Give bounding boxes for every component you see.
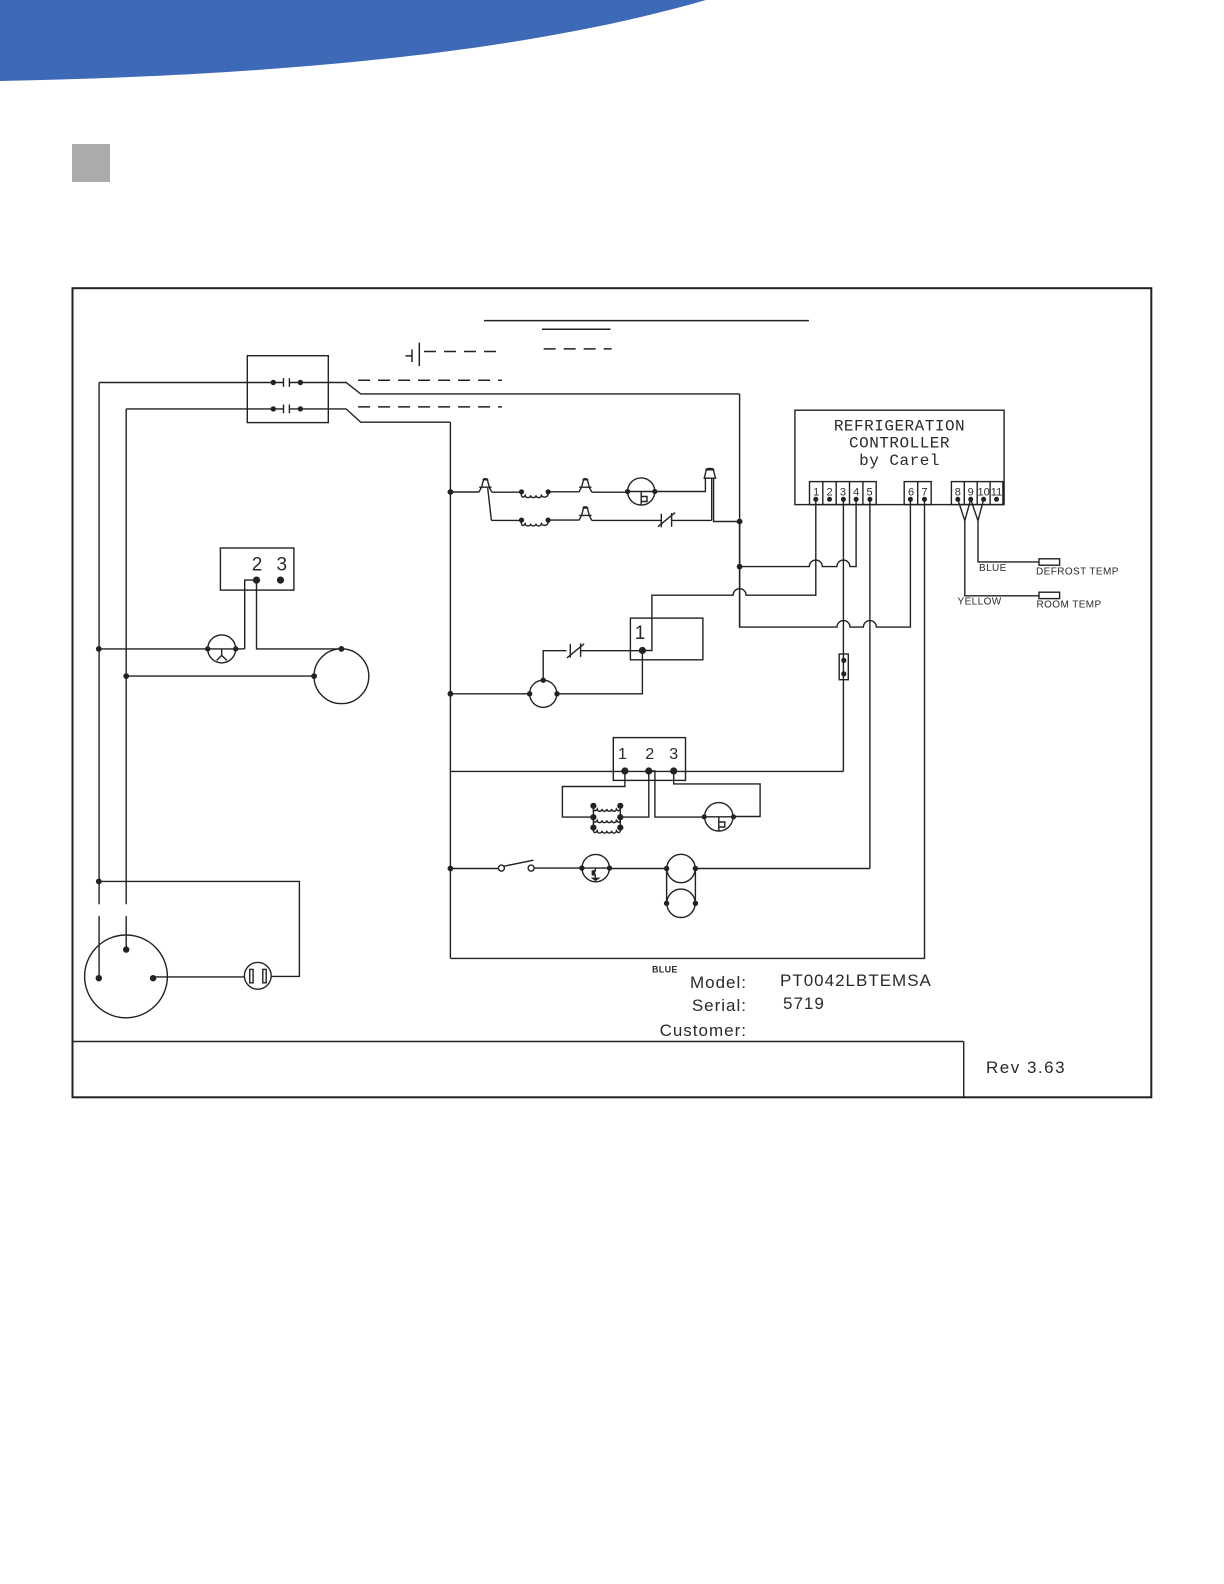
svg-text:1: 1: [635, 623, 646, 644]
CN1 pin dot: [639, 647, 646, 654]
contact plates row2: [284, 405, 290, 414]
start winding coil (lower): [521, 520, 548, 526]
transformer winding row1: [593, 806, 620, 811]
wire terminal7 down: [450, 499, 924, 958]
compressor motor circle M: [314, 649, 369, 704]
transformer dot top-right: [617, 803, 623, 809]
svg-text:5719: 5719: [783, 994, 825, 1013]
contact dot row2 left: [271, 406, 276, 411]
plug prong dot left: [96, 975, 102, 981]
svg-text:PT0042LBTEMSA: PT0042LBTEMSA: [780, 971, 932, 990]
C1 dot left: [527, 691, 532, 696]
door switch blade: [504, 860, 534, 866]
coil dot lower right: [546, 518, 551, 523]
CN23 pin dot 2: [253, 577, 260, 584]
wire outlet loop: [99, 881, 300, 976]
wire terminal4 down to node: [740, 499, 857, 566]
wire cutout to CN1 pin: [581, 650, 643, 652]
plug prong dot top: [123, 946, 129, 952]
wire left riser to fan motor: [99, 648, 208, 650]
S dot left: [579, 865, 584, 870]
transformer dot mid-right: [617, 814, 623, 820]
svg-text:2: 2: [826, 487, 832, 499]
power cord plug circle: [85, 935, 168, 1018]
terminal dot 2: [827, 497, 832, 502]
terminal dot 5: [867, 497, 872, 502]
wire switch feed: [450, 868, 498, 870]
sensor wire V 8-9 to yellow: [958, 499, 1039, 596]
blank title line long: [484, 320, 809, 322]
dashed neutral wire row1: [358, 379, 502, 381]
wire S to double heater: [610, 868, 667, 870]
wire plug right prong to outlet: [153, 976, 244, 978]
terminal dot 3: [841, 497, 846, 502]
svg-text:9: 9: [968, 487, 974, 499]
svg-text:BLUE: BLUE: [979, 563, 1007, 574]
svg-text:1: 1: [813, 487, 819, 499]
terminal dot 7: [922, 497, 927, 502]
wire L1 from left riser to TB1: [99, 382, 283, 384]
CN1 pin wire down to drain heater: [557, 651, 642, 694]
S internal glyph: [592, 868, 598, 880]
connector block CN123: [613, 738, 685, 781]
transformer right rail: [619, 806, 621, 828]
run winding coil (upper): [521, 492, 548, 498]
CN123 pin2 wire to defrost heater F2: [649, 771, 704, 817]
terminal dot 4: [854, 497, 859, 502]
wire terminal3 down to rail: [842, 499, 844, 771]
junction dot fan line: [96, 646, 102, 652]
svg-text:REFRIGERATION: REFRIGERATION: [834, 418, 965, 436]
dashed neutral wire row2: [358, 406, 502, 408]
spade terminal T1: [479, 479, 492, 493]
fan motor internal glyph: [641, 492, 647, 506]
svg-text:5: 5: [866, 487, 872, 499]
terminal dot 8: [955, 497, 960, 502]
heater dot bottom-left: [664, 901, 669, 906]
heater dot top-right: [693, 866, 698, 871]
terminal dot 10: [981, 497, 986, 502]
wire fan motor to plug lead: [655, 491, 706, 493]
evaporator fan motor F1: [208, 635, 236, 663]
terminal dot 1: [813, 497, 818, 502]
lower branch wire: [491, 519, 521, 521]
C1 dot right: [554, 691, 559, 696]
supply rail y=771.4: [450, 770, 843, 772]
coil dot upper right: [546, 489, 551, 494]
S dot right: [607, 865, 612, 870]
title block divider horizontal: [73, 1041, 964, 1043]
wire L2 from left riser to TB1: [126, 408, 283, 410]
svg-text:2: 2: [645, 746, 654, 763]
refrigeration controller box U1: [795, 410, 1004, 504]
terminal dot 11: [994, 497, 999, 502]
defrost sensor bulb: [1039, 559, 1060, 565]
wire T3 to overload contact: [592, 519, 662, 521]
main vertical feeder x=450: [449, 422, 451, 958]
wire row1 out of TB1: [290, 383, 740, 394]
F2 dot left: [702, 814, 707, 819]
junction dot branch start: [448, 489, 454, 495]
ground-like symbol short bar: [411, 349, 413, 362]
contact plates row1: [284, 378, 290, 387]
junction dot x=450 y=693: [448, 691, 454, 697]
F2 internal glyph: [719, 817, 725, 831]
wire overload to plug lead: [672, 519, 712, 521]
transformer dot low-right: [617, 825, 623, 831]
wire heater to terminal5 riser: [695, 868, 870, 870]
plug lead middle: [711, 478, 713, 520]
F1 chord: [208, 648, 236, 650]
wire terminal6 down: [740, 394, 911, 627]
junction dot switch feed: [448, 866, 454, 872]
terminal box TB1: [247, 356, 328, 423]
transformer dot low-left: [590, 825, 596, 831]
heater dot bottom-right: [693, 901, 698, 906]
defrost cutout slash: [567, 644, 584, 658]
ground-like symbol tick: [406, 355, 413, 357]
slant from T1 to lower branch: [488, 488, 492, 520]
heater side rails: [667, 869, 696, 904]
F1 internal fan glyph: [217, 649, 227, 661]
CN123 pin dot 2: [645, 767, 652, 774]
evaporator fan motor circle: [628, 478, 655, 505]
svg-text:1: 1: [618, 746, 627, 763]
door switch contact right: [528, 865, 534, 871]
fan motor dot right: [652, 489, 657, 494]
svg-text:8: 8: [955, 487, 961, 499]
F1 dot right: [233, 646, 238, 651]
header swoosh: [0, 0, 706, 81]
thermostat connector block CN23: [220, 548, 294, 590]
node wire y=566.6 dot: [739, 522, 741, 628]
wire T1 to run coil: [492, 491, 522, 493]
F1 dot left: [205, 646, 210, 651]
C1 dot top: [541, 678, 546, 683]
wall outlet circle: [244, 962, 271, 989]
wire branch start y=492: [450, 491, 479, 493]
svg-text:ROOM TEMP: ROOM TEMP: [1037, 600, 1102, 611]
light circle S: [582, 854, 609, 881]
fan motor dot left: [625, 489, 630, 494]
spade terminal T2: [579, 479, 592, 493]
transformer winding row2: [593, 817, 620, 822]
wire terminal5 down: [869, 499, 871, 868]
left riser wire x=99: [98, 383, 100, 979]
dashed line under short title: [544, 348, 612, 350]
wire left riser2 to compressor: [126, 675, 314, 677]
CN23 pin2 wire jog to fan line: [245, 580, 257, 649]
svg-text:6: 6: [908, 487, 914, 499]
svg-text:3: 3: [669, 746, 678, 763]
svg-text:Rev 3.63: Rev 3.63: [986, 1058, 1066, 1077]
svg-text:DEFROST TEMP: DEFROST TEMP: [1036, 567, 1119, 578]
wire row2 out of TB1: [290, 409, 451, 422]
defrost cutout contact bars: [570, 643, 580, 657]
svg-text:3: 3: [840, 487, 846, 499]
terminal dot 9: [968, 497, 973, 502]
CN123 pin3 wire to F2 right: [674, 771, 760, 817]
svg-text:2: 2: [252, 555, 263, 576]
door switch contact left: [498, 865, 504, 871]
S chord: [582, 867, 610, 869]
defrost heater motor F2 circle: [705, 803, 733, 831]
spade terminal T3: [579, 507, 592, 521]
CN23 pin dot 3: [277, 577, 284, 584]
blank title line short: [542, 328, 611, 330]
svg-text:10: 10: [977, 487, 989, 499]
transformer dot mid-left: [590, 814, 596, 820]
wire T2 to fan motor P: [592, 491, 628, 493]
wire coil to T2: [548, 491, 579, 493]
room sensor bulb: [1039, 592, 1060, 598]
contact dot row2 right: [298, 406, 303, 411]
CN123 pin1 wire to transformer: [562, 771, 625, 817]
svg-text:Serial:: Serial:: [692, 996, 747, 1015]
wire C1 top to defrost cutout: [543, 651, 566, 681]
left riser wire x=126: [125, 409, 127, 950]
svg-text:4: 4: [853, 487, 859, 499]
CN123 pin dot 1: [621, 767, 628, 774]
terminal dot 6: [908, 497, 913, 502]
connector block dot lower: [841, 671, 846, 676]
terminal strip cells 8-11: [951, 482, 1003, 505]
overload contact bars: [661, 513, 671, 527]
transformer dot top-left: [590, 803, 596, 809]
drain heater circle C1: [530, 680, 557, 707]
sensor wire V 9-10 to blue: [971, 499, 1039, 562]
transformer left rail: [592, 806, 594, 828]
terminal strip cells 1-5: [810, 482, 877, 505]
coil dot upper left: [519, 489, 524, 494]
contact dot row1 left: [271, 380, 276, 385]
CN123 pin2 wire to transformer secondary: [621, 771, 649, 817]
gray square bullet: [72, 144, 110, 182]
CN123 pin dot 3: [670, 767, 677, 774]
title block divider vertical: [963, 1042, 965, 1098]
plug lead left: [704, 478, 706, 492]
coil dot lower left: [519, 518, 524, 523]
compressor top dot: [339, 646, 345, 652]
junction dot node 566: [737, 564, 743, 570]
inline connector block on terminal3 wire: [839, 654, 848, 680]
CN23 pin2 wire to compressor top: [257, 580, 342, 649]
svg-text:3: 3: [277, 555, 288, 576]
wire terminal1 down to relay pin: [642, 499, 815, 650]
svg-text:YELLOW: YELLOW: [958, 597, 1002, 608]
junction dot riser2: [123, 673, 129, 679]
outlet slot left: [250, 969, 253, 982]
svg-text:11: 11: [991, 487, 1002, 499]
contact dot row1 right: [298, 380, 303, 385]
plug cap PL1: [704, 468, 717, 478]
connector block dot upper: [841, 658, 846, 663]
plug prong dot right: [150, 975, 156, 981]
wire coil to T3: [548, 519, 579, 521]
junction dot outlet loop: [96, 879, 102, 885]
heater dot top-left: [664, 866, 669, 871]
overload contact slash: [658, 513, 675, 527]
heater top circle: [667, 854, 695, 882]
outlet slot right: [263, 969, 266, 982]
ground-like symbol tall bar: [418, 343, 420, 367]
dashed wire from symbol: [424, 351, 502, 353]
terminal strip cells 6-7: [904, 482, 931, 505]
wire F1 to pin2 riser: [236, 648, 245, 650]
svg-text:BLUE: BLUE: [652, 965, 678, 975]
plug lead right: [714, 478, 740, 521]
F2 dot right: [731, 814, 736, 819]
relay connector block CN1: [630, 618, 703, 660]
svg-text:7: 7: [921, 487, 927, 499]
transformer winding row3: [593, 828, 620, 833]
svg-text:by Carel: by Carel: [859, 452, 940, 470]
junction dot plug to vertical: [737, 519, 743, 525]
diagram outer border: [73, 288, 1152, 1097]
svg-text:Model:: Model:: [690, 973, 747, 992]
svg-text:Customer:: Customer:: [660, 1021, 747, 1040]
wire switch to light S: [534, 867, 582, 869]
svg-text:CONTROLLER: CONTROLLER: [849, 435, 950, 453]
F2 chord: [705, 816, 733, 818]
compressor left dot: [311, 673, 317, 679]
heater bottom circle: [667, 889, 695, 917]
fan motor chord: [628, 491, 655, 493]
wire into C1 from branch: [450, 693, 529, 695]
